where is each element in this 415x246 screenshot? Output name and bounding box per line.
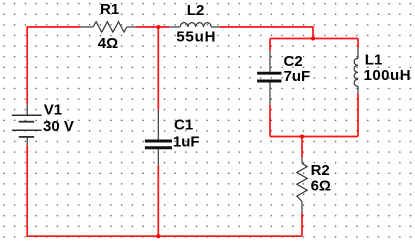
wire C1 upper branch (157, 27, 159, 110)
svg-text:55uH: 55uH (176, 28, 216, 45)
svg-text:30 V: 30 V (43, 118, 74, 135)
junction tank bottom / R2 (300, 135, 304, 139)
wire tank left upper (to C2) (269, 39, 271, 51)
svg-text:R1: R1 (100, 1, 119, 18)
junction bottom rail / C1 (156, 234, 160, 238)
svg-text:C1: C1 (174, 116, 193, 133)
resistor R1 (81, 22, 137, 32)
wire C1 lower branch (157, 166, 159, 237)
battery V1 (12, 104, 42, 145)
capacitor C2 (257, 51, 281, 105)
junction top rail / C1 (156, 25, 160, 29)
inductor L2 (169, 23, 220, 27)
wire C2 lower (269, 105, 271, 137)
wire tank bottom edge (270, 136, 358, 138)
wire tank right upper (to L1) (357, 39, 359, 48)
wire tank top edge (270, 38, 358, 40)
wire L2 to tank drop (220, 27, 313, 39)
svg-text:4Ω: 4Ω (98, 35, 118, 52)
wire R2 to bottom rail (301, 213, 303, 237)
capacitor C1 (145, 110, 172, 166)
wire bottom rail (27, 146, 302, 237)
svg-text:L1: L1 (365, 52, 383, 69)
junction tank top (311, 37, 315, 41)
svg-text:7uF: 7uF (284, 68, 311, 85)
wire L1 lower (357, 94, 359, 137)
wire left-top rail (V1 to R1) (27, 27, 80, 104)
wire tank to R2 (301, 137, 303, 158)
svg-text:V1: V1 (44, 102, 62, 119)
inductor L1 (354, 47, 358, 93)
resistor R2 (297, 158, 307, 213)
svg-text:6Ω: 6Ω (311, 177, 331, 194)
svg-text:R2: R2 (311, 162, 330, 179)
svg-text:L2: L2 (187, 2, 205, 19)
svg-text:1uF: 1uF (173, 133, 200, 150)
wire R1 to L2 (136, 26, 169, 28)
svg-text:100uH: 100uH (364, 67, 412, 84)
